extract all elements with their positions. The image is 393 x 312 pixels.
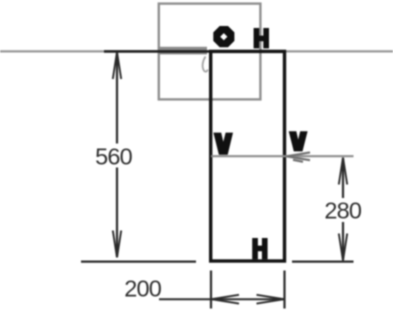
- constraint marker H (bottom, horizontal): [252, 238, 267, 259]
- 560 top arrow (up): [113, 52, 121, 79]
- gray witness line through rect at y=156 (280 top reference): [211, 155, 354, 157]
- construction line X axis (gray, full width): [0, 50, 393, 52]
- svg-text:560: 560: [95, 144, 133, 170]
- 200 right arrow (points right): [257, 295, 285, 304]
- 280 top arrow (up): [339, 158, 347, 185]
- svg-text:200: 200: [124, 275, 162, 301]
- 280 bottom witness line: [292, 261, 354, 263]
- 200 dim line with leader to text: [159, 298, 285, 300]
- top witness line for 560 (black): [104, 50, 212, 53]
- 200 left arrow (points left): [212, 295, 240, 304]
- 560 bottom arrow (down): [113, 231, 121, 258]
- dimension 560: vertical dim line: [116, 53, 118, 144]
- dimension 280: vertical dim line: [342, 159, 344, 199]
- thick gray highlighted segment on axis: [158, 47, 207, 55]
- dimension 200: extension lines: [210, 271, 212, 309]
- gray reference rectangle: [159, 4, 261, 100]
- small gray hook marker below origin: [203, 57, 208, 72]
- constraint icon: octagon with diamond hole (fix): [213, 26, 234, 47]
- svg-text:280: 280: [324, 198, 362, 224]
- constraint marker H (top, horizontal): [254, 28, 269, 48]
- 560 bottom witness line: [81, 261, 196, 263]
- gray arrow on witness line pointing left: [287, 152, 311, 161]
- 280 bottom arrow (down): [339, 234, 347, 261]
- constraint marker V (right vertical): [289, 131, 308, 151]
- constraint marker V (left vertical): [213, 133, 233, 155]
- profile rectangle (black sketch): [211, 51, 285, 261]
